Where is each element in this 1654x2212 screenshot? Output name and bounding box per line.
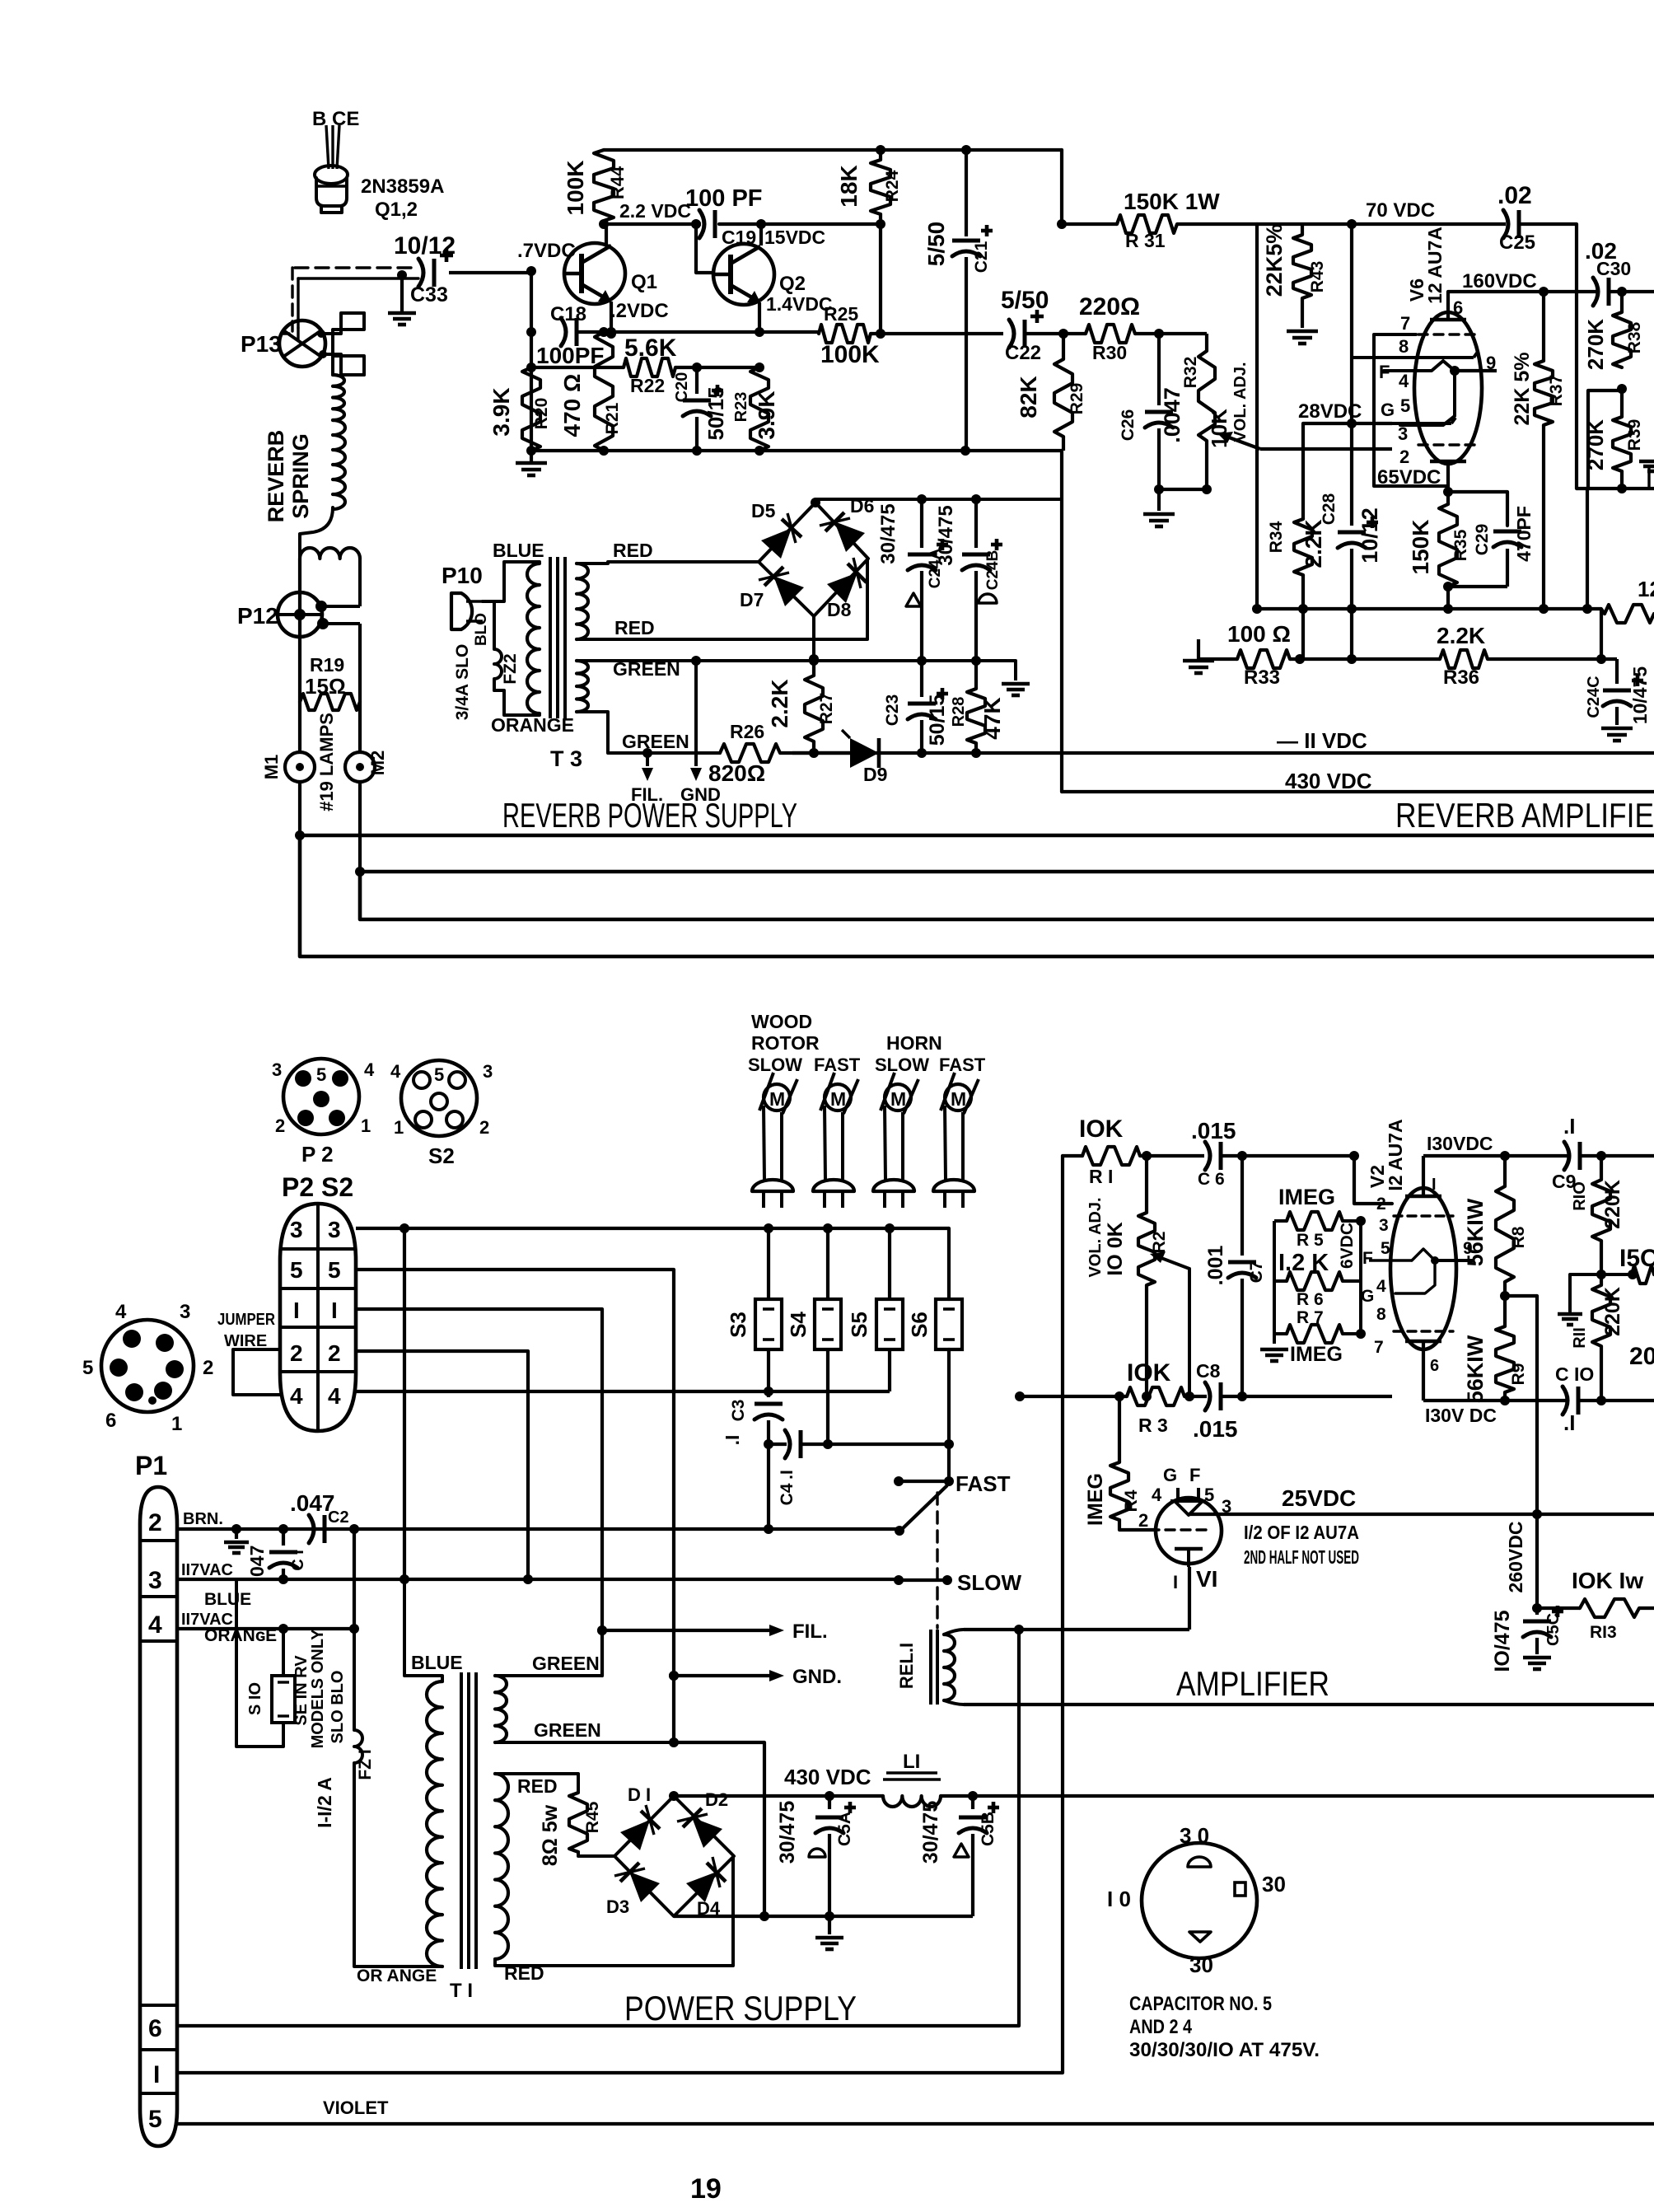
svg-text:C18: C18 bbox=[550, 303, 586, 325]
wire C4 to S6 bbox=[828, 1443, 949, 1446]
svg-text:IOK: IOK bbox=[1079, 1115, 1124, 1143]
wire row6 line bbox=[177, 1630, 1019, 2026]
marker C5B triangle bbox=[954, 1844, 969, 1857]
svg-text:F: F bbox=[1362, 1249, 1373, 1268]
resistor R30 220ohm bbox=[1086, 325, 1135, 343]
node bridge top bbox=[811, 498, 820, 507]
wire pot bottom rail bbox=[1159, 488, 1207, 491]
node R39 bottom bbox=[1617, 484, 1627, 493]
capacitor C5A 30/475 bbox=[828, 1796, 831, 1809]
motor wood slow bbox=[764, 1084, 790, 1111]
capacitor C28 10/12 bbox=[1350, 423, 1353, 526]
svg-text:6: 6 bbox=[148, 2015, 162, 2042]
transformer T1 red sec bbox=[495, 1774, 508, 1959]
svg-text:30: 30 bbox=[1189, 1952, 1213, 1977]
svg-text:R I: R I bbox=[1089, 1166, 1113, 1187]
svg-text:5: 5 bbox=[82, 1357, 93, 1379]
svg-text:T 3: T 3 bbox=[550, 746, 582, 771]
svg-text:2: 2 bbox=[1376, 1195, 1386, 1214]
svg-text:C4: C4 bbox=[778, 1483, 797, 1505]
wire emitter rail bbox=[611, 330, 819, 334]
capacitor C7 .001 bbox=[1240, 1156, 1244, 1256]
svg-text:Q1: Q1 bbox=[631, 271, 657, 293]
svg-text:.02: .02 bbox=[1497, 182, 1532, 209]
tube V6 12AU7A bbox=[1414, 312, 1482, 464]
svg-text:R27: R27 bbox=[817, 693, 836, 725]
svg-text:G: G bbox=[1361, 1287, 1374, 1306]
capacitor C5C 10/475 bbox=[1535, 1608, 1539, 1615]
svg-text:T I: T I bbox=[450, 1980, 473, 2002]
wire bridge top out bbox=[815, 499, 1062, 503]
svg-text:BLUE: BLUE bbox=[411, 1652, 463, 1673]
svg-text:5: 5 bbox=[148, 2106, 162, 2133]
svg-text:ROTOR: ROTOR bbox=[751, 1032, 820, 1054]
resistor R40 12K edge bbox=[1605, 605, 1654, 623]
transformer T1 primary bbox=[427, 1681, 442, 1966]
ground below C24C bbox=[1601, 727, 1633, 731]
wire rail to 430 riser bbox=[1060, 451, 1063, 792]
connector P1 stadium bbox=[140, 1487, 177, 2146]
svg-text:.2VDC: .2VDC bbox=[610, 300, 669, 322]
resistor R12 edge bbox=[1632, 1265, 1654, 1284]
wire row3 riser bbox=[403, 1228, 406, 1579]
svg-text:MODELS ONLY: MODELS ONLY bbox=[309, 1629, 327, 1748]
resistor R28 47K bbox=[974, 661, 978, 689]
svg-text:D5: D5 bbox=[751, 500, 776, 521]
resistor R45 8ohm 5W bbox=[577, 1774, 580, 1793]
svg-text:P 2: P 2 bbox=[301, 1142, 334, 1167]
svg-text:C24C: C24C bbox=[1585, 676, 1603, 718]
wire M2 to bus bbox=[358, 782, 362, 872]
motor horn slow bbox=[885, 1084, 911, 1111]
svg-text:260VDC: 260VDC bbox=[1505, 1522, 1526, 1593]
svg-text:I2 AU7A: I2 AU7A bbox=[1385, 1119, 1406, 1190]
wire FZ1 to T1 bbox=[354, 1779, 442, 1966]
switch S4 bbox=[815, 1299, 841, 1349]
svg-text:M: M bbox=[830, 1088, 846, 1110]
capacitor C30 .02 bbox=[1593, 278, 1598, 306]
svg-text:IOK Iw: IOK Iw bbox=[1572, 1568, 1643, 1593]
svg-text:5: 5 bbox=[1381, 1239, 1390, 1258]
resistor R37 22K5% bbox=[1542, 292, 1545, 361]
wire R25 to C22 row bbox=[871, 332, 1003, 335]
svg-text:P2 S2: P2 S2 bbox=[282, 1172, 353, 1202]
svg-text:R38: R38 bbox=[1625, 321, 1644, 353]
svg-text:4: 4 bbox=[1376, 1277, 1386, 1296]
wire rail 739 bbox=[1257, 607, 1601, 610]
wire green lower to riser bbox=[673, 1741, 764, 1744]
svg-text:D3: D3 bbox=[606, 1896, 629, 1917]
node bridge D top bbox=[669, 1791, 679, 1801]
svg-text:5: 5 bbox=[290, 1257, 303, 1283]
svg-text:30/475: 30/475 bbox=[877, 503, 899, 564]
svg-text:C23: C23 bbox=[883, 694, 902, 727]
tube V6 cathode bbox=[1430, 460, 1466, 464]
svg-text:C8: C8 bbox=[1196, 1360, 1221, 1382]
svg-text:RED: RED bbox=[614, 617, 655, 638]
svg-text:LI: LI bbox=[903, 1751, 920, 1773]
wire S6 drop bbox=[947, 1228, 951, 1299]
svg-text:I30VDC: I30VDC bbox=[1427, 1133, 1493, 1154]
reverb spring coil upper bbox=[333, 375, 344, 420]
svg-text:R 7: R 7 bbox=[1297, 1308, 1324, 1327]
capacitor C24C 10/475 bbox=[1615, 659, 1619, 684]
wire FAST row bbox=[899, 1480, 949, 1483]
svg-text:R20: R20 bbox=[532, 398, 551, 430]
switch S5 bbox=[876, 1299, 903, 1349]
svg-text:3: 3 bbox=[148, 1567, 162, 1594]
svg-text:P12: P12 bbox=[237, 603, 278, 629]
svg-text:ORANGE: ORANGE bbox=[491, 714, 574, 736]
svg-text:SLOW: SLOW bbox=[957, 1570, 1021, 1595]
svg-text:SE IN RV: SE IN RV bbox=[292, 1655, 311, 1726]
wire bus1 bbox=[300, 834, 1654, 838]
svg-text:2: 2 bbox=[290, 1340, 303, 1366]
pot R32 wiper arrow bbox=[1222, 435, 1260, 449]
resistor R23 3.9K bbox=[750, 367, 769, 451]
inductor L1 bbox=[829, 1794, 883, 1798]
capacitor C23 50/15 bbox=[908, 702, 936, 706]
svg-text:.001: .001 bbox=[1204, 1246, 1227, 1286]
potentiometer R32 10K VOL.ADJ bbox=[1198, 351, 1215, 441]
svg-text:.I: .I bbox=[722, 1435, 743, 1446]
wire 70VDC bbox=[1257, 222, 1506, 226]
svg-text:4: 4 bbox=[1152, 1485, 1162, 1505]
svg-text:5: 5 bbox=[328, 1257, 341, 1283]
can marker top halfmoon bbox=[1188, 1857, 1211, 1867]
svg-text:6: 6 bbox=[1430, 1357, 1439, 1375]
resistor R3 10K bbox=[1127, 1387, 1184, 1405]
resistor R21 470ohm bbox=[595, 332, 613, 451]
svg-text:100 PF: 100 PF bbox=[685, 185, 763, 212]
wire R36 right bbox=[1488, 657, 1617, 661]
svg-text:S4: S4 bbox=[786, 1312, 811, 1338]
svg-text:1: 1 bbox=[171, 1413, 182, 1435]
svg-text:5/50: 5/50 bbox=[923, 222, 949, 267]
ground C5A bbox=[828, 1916, 831, 1934]
connector S2 round bbox=[401, 1060, 477, 1136]
resistor R27 2.2K bbox=[812, 661, 815, 676]
capacitor C20 50/15 bbox=[695, 367, 699, 394]
wire 260VDC riser bbox=[1535, 1296, 1539, 1608]
svg-text:R44: R44 bbox=[607, 166, 628, 199]
wire R8R9 to 260 bbox=[1505, 1294, 1537, 1298]
svg-text:I-I/2 A: I-I/2 A bbox=[314, 1777, 335, 1828]
svg-text:28VDC: 28VDC bbox=[1298, 400, 1362, 423]
connector P1 round bbox=[101, 1320, 194, 1412]
svg-text:C5C: C5C bbox=[1544, 1613, 1563, 1646]
wire SLOW row bbox=[899, 1578, 947, 1582]
svg-text:30/475: 30/475 bbox=[935, 505, 957, 565]
svg-text:CAPACITOR NO. 5: CAPACITOR NO. 5 bbox=[1129, 1993, 1272, 2015]
tube V2 12AU7A bbox=[1390, 1188, 1456, 1349]
svg-text:19: 19 bbox=[690, 2173, 722, 2205]
resistor R44 100K bbox=[594, 150, 614, 221]
wire P2S2 row5 bbox=[356, 1270, 674, 1676]
svg-text:5: 5 bbox=[316, 1064, 326, 1085]
wire 117VAC row3 bbox=[177, 1578, 899, 1581]
svg-text:150K: 150K bbox=[1408, 520, 1433, 575]
svg-text:2N3859A: 2N3859A bbox=[361, 175, 444, 198]
svg-text:G: G bbox=[1163, 1465, 1177, 1485]
svg-text:.015: .015 bbox=[1191, 1118, 1236, 1143]
marker C24A triangle bbox=[906, 593, 921, 606]
svg-text:1: 1 bbox=[361, 1115, 371, 1136]
svg-text:8Ω 5w: 8Ω 5w bbox=[539, 1804, 562, 1866]
svg-text:R43: R43 bbox=[1308, 261, 1327, 293]
wire row4 orange bbox=[177, 1627, 354, 1630]
svg-text:FZ2: FZ2 bbox=[501, 653, 520, 684]
svg-text:10/12: 10/12 bbox=[1357, 507, 1382, 564]
transformer T1 green sec bbox=[495, 1676, 507, 1742]
capacitor C2 .047 bbox=[309, 1515, 314, 1543]
svg-text:2: 2 bbox=[275, 1115, 285, 1136]
svg-text:D2: D2 bbox=[705, 1789, 728, 1810]
svg-text:I 0: I 0 bbox=[1107, 1887, 1131, 1911]
lamp M1 bbox=[285, 752, 315, 782]
svg-text:150K 1W: 150K 1W bbox=[1124, 189, 1220, 214]
wire REL1 top to V1 bbox=[964, 1628, 1189, 1631]
resistor R10 220K bbox=[1600, 1156, 1603, 1180]
wire 12K down bbox=[1600, 609, 1603, 659]
svg-text:BLUE: BLUE bbox=[204, 1590, 251, 1609]
wire P13 to dashed riser bbox=[283, 321, 292, 334]
tube V6 grid cage bbox=[1374, 334, 1446, 486]
ground green rail bbox=[1014, 661, 1017, 680]
svg-text:2: 2 bbox=[148, 1509, 162, 1536]
wire riser 928 bbox=[763, 1742, 766, 1916]
svg-text:Q1,2: Q1,2 bbox=[375, 199, 418, 221]
svg-text:I: I bbox=[293, 1298, 300, 1323]
wire R33 row left bbox=[1198, 657, 1237, 661]
svg-text:30/475: 30/475 bbox=[919, 1801, 942, 1864]
resistor R24 18K bbox=[871, 160, 890, 214]
svg-text:70 VDC: 70 VDC bbox=[1366, 199, 1435, 222]
wire P12 down left bbox=[298, 559, 301, 753]
resistor R31 150K 1W bbox=[1117, 215, 1177, 233]
wire R35 C29 bottom bbox=[1448, 585, 1507, 588]
wire C19 to Q2 collector bbox=[719, 214, 881, 224]
wire red top bbox=[495, 1772, 578, 1775]
svg-text:8: 8 bbox=[1399, 336, 1409, 357]
svg-text:SLOW: SLOW bbox=[875, 1055, 929, 1075]
svg-text:160VDC: 160VDC bbox=[1462, 270, 1537, 292]
wire S3 bottom bbox=[767, 1349, 770, 1391]
svg-text:C22: C22 bbox=[1005, 342, 1041, 364]
svg-text:GREEN: GREEN bbox=[534, 1719, 601, 1741]
wire C33 to Q1 base bbox=[449, 271, 531, 274]
svg-text:C26: C26 bbox=[1119, 409, 1138, 442]
transistor Q1 bbox=[564, 243, 625, 304]
wire ps bottom rail bbox=[674, 1915, 973, 1918]
wire GND drop bbox=[694, 661, 698, 766]
coil reverb spring bbox=[333, 420, 345, 509]
svg-text:470PF: 470PF bbox=[1513, 506, 1535, 562]
capacitor C5B 30/475 bbox=[971, 1796, 974, 1809]
svg-text:FIL.: FIL. bbox=[792, 1620, 828, 1643]
wire 130 bottom row bbox=[1423, 1399, 1505, 1402]
resistor R7 1MEG bbox=[1287, 1325, 1343, 1343]
svg-text:5/50: 5/50 bbox=[1001, 287, 1049, 314]
resistor R11 220K bbox=[1592, 1285, 1610, 1346]
plug P10 bbox=[451, 593, 472, 629]
ground below R43 bbox=[1301, 298, 1304, 328]
svg-text:3: 3 bbox=[328, 1217, 341, 1242]
svg-text:R 6: R 6 bbox=[1297, 1290, 1324, 1309]
potentiometer R2 100K bbox=[1145, 1156, 1148, 1213]
svg-text:.7VDC: .7VDC bbox=[517, 240, 576, 262]
svg-text:6: 6 bbox=[1453, 297, 1463, 318]
ground R33 bbox=[1183, 659, 1214, 663]
svg-text:10/475: 10/475 bbox=[1629, 666, 1651, 725]
svg-text:S3: S3 bbox=[726, 1312, 750, 1338]
svg-text:RED: RED bbox=[613, 540, 653, 561]
wire right riser x1289 bbox=[1060, 150, 1063, 224]
svg-text:VI: VI bbox=[1196, 1566, 1217, 1592]
svg-text:D I: D I bbox=[628, 1784, 651, 1805]
svg-text:S5: S5 bbox=[847, 1312, 871, 1338]
svg-text:30: 30 bbox=[1262, 1872, 1286, 1896]
svg-text:3.9K: 3.9K bbox=[488, 387, 514, 436]
wire red bottom bbox=[495, 1858, 733, 1966]
svg-text:R21: R21 bbox=[603, 402, 622, 434]
svg-text:VOL. ADJ.: VOL. ADJ. bbox=[1086, 1197, 1105, 1277]
svg-text:C21: C21 bbox=[972, 241, 991, 273]
wire Q2 emitter down bbox=[758, 302, 761, 334]
svg-text:GREEN: GREEN bbox=[532, 1653, 600, 1674]
wire P2S2 row2 bbox=[356, 1351, 528, 1579]
wire top rail bbox=[604, 148, 1062, 152]
svg-text:REVERB: REVERB bbox=[264, 430, 288, 523]
svg-text:S2: S2 bbox=[428, 1143, 455, 1168]
svg-text:WOOD: WOOD bbox=[751, 1011, 812, 1032]
marker C5A halfmoon bbox=[809, 1849, 825, 1857]
svg-text:R19: R19 bbox=[310, 654, 344, 676]
svg-text:I.2 K: I.2 K bbox=[1278, 1250, 1329, 1276]
bridge D5-D8 bbox=[759, 503, 868, 616]
svg-text:R4: R4 bbox=[1122, 1489, 1141, 1512]
can marker bottom triangle bbox=[1189, 1932, 1211, 1942]
svg-text:R26: R26 bbox=[730, 721, 764, 742]
resistor R6 1.2K bbox=[1287, 1272, 1343, 1290]
svg-text:VIOLET: VIOLET bbox=[323, 2097, 389, 2118]
svg-text:7: 7 bbox=[1400, 313, 1410, 334]
svg-text:D8: D8 bbox=[827, 599, 852, 620]
svg-text:1.4VDC: 1.4VDC bbox=[766, 293, 833, 315]
wire ground rail bbox=[531, 449, 1063, 452]
svg-text:3: 3 bbox=[180, 1301, 190, 1323]
svg-text:R 3: R 3 bbox=[1138, 1415, 1168, 1436]
relay REL.1 bbox=[929, 1630, 932, 1705]
svg-text:S IO: S IO bbox=[246, 1682, 264, 1715]
svg-text:3: 3 bbox=[1379, 1216, 1389, 1235]
tube V6 pin3 hook bbox=[1392, 422, 1451, 425]
wire wiper to tube pin2 bbox=[1260, 447, 1392, 451]
svg-text:220K: 220K bbox=[1601, 1287, 1624, 1336]
svg-text:3: 3 bbox=[483, 1061, 493, 1082]
svg-text:POWER SUPPLY: POWER SUPPLY bbox=[624, 1989, 857, 2027]
wire R1 to C6 bbox=[1140, 1154, 1204, 1157]
wire GND line bbox=[674, 1674, 773, 1677]
capacitor C33 bbox=[418, 259, 423, 287]
svg-text:GND: GND bbox=[680, 784, 721, 805]
svg-text:IMEG: IMEG bbox=[1278, 1185, 1335, 1209]
svg-text:65VDC: 65VDC bbox=[1377, 466, 1441, 489]
svg-text:P13: P13 bbox=[241, 331, 282, 357]
svg-text:C30: C30 bbox=[1596, 258, 1631, 279]
svg-text:6VDC: 6VDC bbox=[1338, 1223, 1357, 1269]
svg-text:.015: .015 bbox=[1193, 1416, 1238, 1442]
node R21 top bbox=[599, 327, 609, 337]
svg-text:C28: C28 bbox=[1320, 493, 1339, 525]
resistor R33 100ohm bbox=[1237, 650, 1290, 668]
svg-text:FZ I: FZ I bbox=[356, 1749, 375, 1779]
svg-text:82K: 82K bbox=[1016, 376, 1041, 418]
wire C2 drop bbox=[353, 1529, 356, 1629]
capacitor C22 5/50 bbox=[1009, 320, 1014, 348]
svg-text:2: 2 bbox=[1399, 447, 1409, 467]
capacitor C3 .1 bbox=[767, 1391, 770, 1397]
capacitor C19 100PF bbox=[699, 210, 704, 238]
arrow FIL bbox=[769, 1625, 784, 1636]
svg-text:4: 4 bbox=[115, 1301, 127, 1323]
svg-text:2.2 VDC: 2.2 VDC bbox=[619, 200, 691, 222]
svg-text:R35: R35 bbox=[1451, 529, 1470, 561]
svg-text:RI3: RI3 bbox=[1590, 1623, 1617, 1642]
svg-text:100PF: 100PF bbox=[536, 343, 605, 368]
svg-text:2: 2 bbox=[479, 1117, 489, 1138]
resistor R20 3.9K bbox=[522, 367, 540, 451]
transformer T3 sec green bbox=[577, 661, 588, 712]
resistor R36 2.2K bbox=[1440, 650, 1488, 668]
svg-text:R 5: R 5 bbox=[1297, 1231, 1324, 1250]
svg-text:20О: 20О bbox=[1629, 1343, 1654, 1370]
svg-text:4: 4 bbox=[1399, 371, 1409, 391]
svg-text:2: 2 bbox=[1138, 1510, 1148, 1531]
wire bridge bottom bbox=[812, 616, 815, 659]
svg-text:220K: 220K bbox=[1601, 1180, 1624, 1229]
ground below C26 bbox=[1157, 489, 1161, 511]
svg-text:R9: R9 bbox=[1509, 1363, 1528, 1386]
svg-text:R23: R23 bbox=[732, 392, 750, 423]
wire R24 bottom bbox=[879, 224, 882, 334]
svg-text:C5B: C5B bbox=[979, 1812, 998, 1846]
wire R1 row bbox=[1063, 1154, 1082, 1157]
svg-text:C IO: C IO bbox=[1555, 1363, 1594, 1385]
resistor R39 270K bbox=[1620, 389, 1624, 417]
svg-text:BLUE: BLUE bbox=[493, 540, 544, 561]
wire C9 out bbox=[1580, 1154, 1654, 1157]
tube V1 internals bbox=[1176, 1488, 1180, 1501]
svg-text:— II VDC: — II VDC bbox=[1277, 728, 1367, 753]
svg-text:F: F bbox=[1189, 1465, 1200, 1485]
arrow GND bbox=[769, 1670, 784, 1681]
wire bus4 bbox=[300, 835, 1654, 956]
svg-text:100K: 100K bbox=[563, 161, 588, 216]
connector P2S2 stadium bbox=[280, 1204, 356, 1431]
capacitor C18 100PF bbox=[561, 318, 566, 346]
wire dashed input pair bbox=[298, 277, 418, 279]
P2S2 row dividers bbox=[280, 1247, 356, 1251]
svg-text:S6: S6 bbox=[907, 1312, 932, 1338]
wire -11VDC bbox=[792, 751, 1654, 755]
capacitor C10 .1 bbox=[1563, 1387, 1568, 1415]
svg-text:5: 5 bbox=[1400, 395, 1410, 416]
wire Q1 emitter down bbox=[610, 302, 613, 332]
wire base-C18 vertical bbox=[530, 271, 533, 451]
svg-text:G: G bbox=[1381, 400, 1395, 420]
capacitor C26 .0047 bbox=[1157, 334, 1161, 405]
